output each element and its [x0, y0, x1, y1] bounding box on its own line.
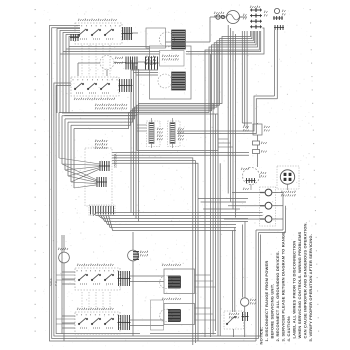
- svg-text:5. VERIFY PROPER OPERATION AFT: 5. VERIFY PROPER OPERATION AFTER SERVICI…: [308, 234, 313, 342]
- svg-text:LABEL ALL WIRES PRIOR TO DISCO: LABEL ALL WIRES PRIOR TO DISCONNECTION: [292, 241, 297, 339]
- svg-text:1. DISCONNECT RANGE FROM POWER: 1. DISCONNECT RANGE FROM POWER: [264, 261, 269, 342]
- svg-text:2. RECONNECT ALL GROUNDING DEV: 2. RECONNECT ALL GROUNDING DEVICES.: [275, 251, 280, 341]
- svg-text:NOTICE:: NOTICE:: [259, 327, 264, 345]
- svg-text:3. SERVICER PLEASE RETURN DIAG: 3. SERVICER PLEASE RETURN DIAGRAM TO RAN…: [281, 231, 286, 342]
- svg-text:3595-56A: 3595-56A: [114, 153, 118, 168]
- svg-text:SW-A: SW-A: [49, 278, 53, 286]
- svg-text:CAN CAUSE IMPROPER AND DANGERO: CAN CAUSE IMPROPER AND DANGEROUS OPERATI…: [303, 222, 308, 338]
- svg-text:P-9: P-9: [54, 281, 58, 286]
- svg-text:WHEN SERVICING CONTROLS. WIRIN: WHEN SERVICING CONTROLS. WIRING PROBLEMS: [297, 231, 302, 338]
